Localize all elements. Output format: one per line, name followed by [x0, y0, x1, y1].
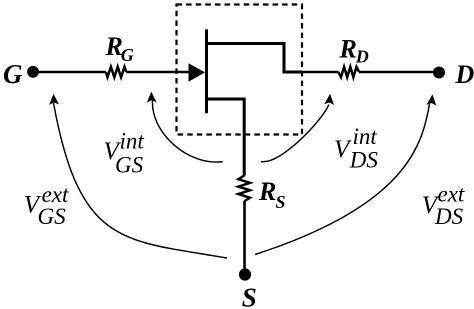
- transistor source connection: [207, 99, 244, 176]
- svg-text:int: int: [120, 129, 145, 154]
- svg-text:D: D: [355, 47, 369, 67]
- transistor drain connection: [207, 44, 302, 73]
- svg-text:GS: GS: [115, 153, 144, 178]
- gate arrowhead: [189, 63, 206, 81]
- label V_DS^ext: [422, 182, 465, 230]
- node D: [433, 67, 445, 79]
- transistor bar: [205, 29, 208, 113]
- wire RG to gate arrow: [126, 71, 190, 74]
- node S: [239, 268, 251, 280]
- svg-text:GS: GS: [38, 204, 67, 229]
- svg-text:ext: ext: [438, 182, 465, 207]
- arrow V_DS^int: [261, 93, 335, 161]
- arrow V_DS^ext: [255, 94, 437, 255]
- node G: [27, 66, 39, 78]
- svg-text:int: int: [353, 124, 378, 149]
- resistor R_G: [106, 67, 127, 77]
- wire box to RD: [300, 71, 339, 74]
- svg-text:G: G: [3, 59, 23, 89]
- arrow V_GS^ext: [49, 94, 227, 258]
- label V_GS^int: [104, 129, 145, 178]
- svg-text:DS: DS: [434, 204, 464, 229]
- svg-text:S: S: [242, 283, 257, 309]
- svg-text:R: R: [339, 35, 357, 64]
- dashed box: [177, 5, 303, 135]
- svg-text:G: G: [121, 45, 134, 65]
- svg-text:S: S: [276, 192, 286, 212]
- label V_GS^ext: [24, 182, 69, 229]
- wire RS to S: [243, 201, 246, 272]
- label V_DS^int: [334, 124, 378, 173]
- resistor R_S: [238, 176, 250, 202]
- wire RD to D: [359, 71, 439, 74]
- svg-text:DS: DS: [349, 148, 379, 173]
- resistor R_D: [338, 67, 359, 77]
- svg-text:R: R: [258, 177, 276, 206]
- svg-text:D: D: [455, 60, 474, 89]
- wire G to RG: [33, 71, 106, 74]
- arrow V_GS^int: [146, 91, 222, 162]
